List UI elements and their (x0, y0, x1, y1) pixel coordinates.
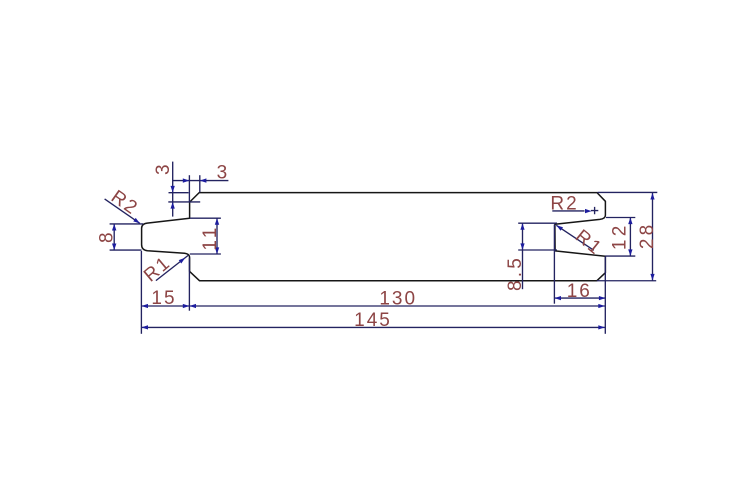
radius R1 right arrow (556, 225, 563, 231)
extension line body left edge (for 15 and 130) (188, 258, 190, 311)
dim 15 and 130 shared dimension line (141, 305, 605, 307)
dim 130 arrow left (189, 304, 196, 308)
dim 8.5 arrow bottom (520, 243, 524, 250)
dim 8 extension stub bottom (110, 249, 142, 251)
dim 11 arrow top (215, 218, 219, 225)
radius R2 right leader (552, 210, 584, 212)
dim 3 vertical arrow top (171, 186, 175, 193)
radius R1 left leader (156, 255, 189, 281)
dim 28 arrow bottom (650, 274, 654, 281)
radius R2 left leader (105, 199, 140, 224)
dim 130 arrow right (598, 304, 605, 308)
svg-text:8: 8 (97, 230, 118, 243)
dim 12 dimension line (629, 218, 631, 257)
dim 16 dimension line (554, 297, 605, 299)
svg-text:3: 3 (217, 163, 230, 184)
dim 145 dimension line (141, 326, 605, 328)
svg-text:12: 12 (610, 223, 631, 251)
dim 8.5 extension stub bottom (518, 249, 557, 251)
profile outline (board cross-section) (142, 193, 606, 281)
svg-text:15: 15 (151, 288, 176, 309)
dim 8.5 extension stub top (518, 222, 557, 224)
dim 8.5 arrow top (520, 223, 524, 230)
dim 15 arrow left (141, 304, 148, 308)
radius R1 left arrow (179, 258, 186, 264)
dim 16 arrow left (554, 296, 561, 300)
svg-text:145: 145 (354, 310, 392, 331)
dim 28 dimension line (652, 193, 654, 281)
dim 3 horizontal arrow right (200, 178, 207, 182)
extension line right edge (for 16, 130, 145) (604, 256, 606, 334)
extension line tongue tip (left, for 15 and 145) (140, 251, 142, 334)
svg-text:R2: R2 (550, 193, 578, 214)
svg-text:3: 3 (153, 162, 174, 175)
dim 11 extension stub bottom (190, 253, 221, 255)
dim 145 arrow left (141, 325, 148, 329)
dim 16 arrow right (599, 296, 606, 300)
dim 3 vertical extension stub bottom (168, 201, 200, 203)
dim 3 horizontal extension line right (199, 175, 201, 192)
dim 8 dimension line (113, 224, 115, 250)
radius R2 right arrow (585, 209, 592, 213)
svg-text:16: 16 (567, 281, 592, 302)
dim 28 arrow top (650, 193, 654, 200)
svg-text:28: 28 (637, 222, 658, 250)
dim 3 horizontal extension line left (188, 175, 190, 202)
dim 28 extension line top (598, 191, 658, 193)
dim 3 vertical arrow bottom (171, 202, 175, 209)
dim 8 arrow bottom (112, 244, 116, 251)
dim 28 extension line bottom (597, 280, 656, 282)
dim 15 arrow right (183, 304, 190, 308)
dim 11 arrow bottom (215, 247, 219, 254)
svg-text:8.5: 8.5 (505, 255, 526, 291)
svg-text:130: 130 (379, 289, 417, 310)
extension line notch apex (for 8.5 and 16) (553, 225, 555, 304)
radius R1 right leader (556, 225, 594, 250)
dim 12 arrow bottom (628, 249, 632, 256)
dim 8 extension stub top (110, 223, 144, 225)
dim 3 horizontal dimension line (173, 180, 229, 182)
radius R2 left arrow (133, 218, 140, 224)
dim 12 arrow top (628, 218, 632, 225)
dim 12 extension stub bottom (605, 255, 635, 257)
dim 3 vertical dimension line (172, 162, 174, 217)
dim 3 horizontal arrow left (183, 178, 190, 182)
dim 3 vertical extension stub top (169, 192, 189, 194)
radius R2 right center mark (591, 207, 598, 214)
dim 11 extension stub top (190, 217, 221, 219)
dim 8.5 dimension line (522, 223, 524, 289)
dim 11 dimension line (216, 218, 218, 254)
dim 12 extension stub top (606, 217, 635, 219)
svg-text:11: 11 (200, 225, 221, 251)
dim 145 arrow right (598, 325, 605, 329)
dim 8 arrow top (112, 224, 116, 231)
